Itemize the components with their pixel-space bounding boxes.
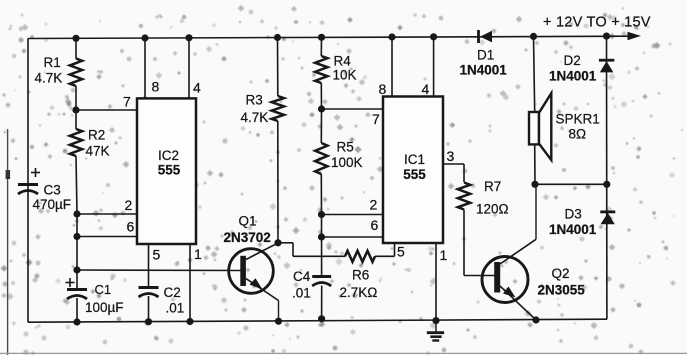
transistor Q2 [482,184,536,320]
svg-text:6: 6 [371,217,379,233]
svg-text:D3: D3 [565,207,582,222]
svg-text:R7: R7 [484,179,501,194]
label R3 [241,93,269,126]
svg-text:Q1: Q1 [239,214,257,229]
node pin6 junction mid [318,233,325,240]
wire IC2 pin 1 [189,244,191,322]
svg-text:47K: 47K [86,144,110,159]
pin 4 IC2 [193,80,201,96]
pin 8 IC2 [152,79,160,95]
svg-text:7: 7 [372,111,380,127]
label D2 [549,53,597,84]
svg-text:5: 5 [153,247,161,263]
svg-text:SPKR1: SPKR1 [556,112,600,127]
node D2 branch rail [603,33,610,40]
wire IC1 pin 2 [322,214,384,216]
wire speaker to node [534,145,536,185]
wire IC1 pin 4 [433,37,435,97]
label C2 [164,285,185,316]
pin 1 IC2 [194,246,202,262]
svg-text:R6: R6 [352,268,369,283]
node C1 bottom rail [73,318,80,325]
node Q1 base junction [73,266,80,273]
label D1 [460,48,508,78]
pin 6 IC1 [371,217,379,233]
svg-text:1N4001: 1N4001 [549,69,597,84]
wire IC2 pin 7 [76,109,137,111]
node pin2 junction left [73,210,80,217]
svg-text:2: 2 [125,197,133,213]
svg-text:1: 1 [440,247,448,263]
svg-text:5: 5 [397,244,405,260]
label C1 [85,282,124,315]
node R3 top rail [274,34,281,41]
node speaker bottom [531,181,538,188]
label R2 [86,128,110,159]
wire IC2 pin 2 [77,213,137,215]
svg-text:8Ω: 8Ω [569,127,587,142]
wire IC2 pin 8 [144,38,146,98]
resistor R7 [458,183,495,276]
node R1/R2/pin7 junction [72,106,79,113]
svg-text:2N3702: 2N3702 [224,230,271,245]
node pin2 junction mid [318,211,325,218]
node top of R1 [72,35,79,42]
power label +12V to +15V [543,15,651,31]
node R3/Q1 collector [274,239,281,246]
node speaker branch rail [530,33,537,40]
node IC1 pin 8 rail [388,33,395,40]
svg-text:7: 7 [123,94,131,110]
svg-text:R5: R5 [337,140,354,155]
wire IC1 pin 6 [322,236,384,238]
label SPKR1 [556,112,600,142]
svg-text:4.7K: 4.7K [35,71,63,86]
resistor R5 [315,109,327,215]
label Q1 [224,214,271,246]
svg-text:D1: D1 [477,48,494,63]
wire IC2 pin 6 [77,236,137,238]
svg-text:3: 3 [447,148,455,164]
node IC1 pin1 rail [432,317,439,324]
diode D2 [599,60,614,72]
resistor R6 [322,251,395,262]
wire right branch D2/D3 [606,36,608,319]
node IC2 pin 8 rail [141,34,148,41]
svg-text:555: 555 [158,163,181,178]
svg-text:555: 555 [403,167,426,182]
pin 7 IC1 [372,111,380,127]
label R7 [476,179,509,217]
pin 3 IC1 [447,148,455,164]
svg-text:120Ω: 120Ω [476,202,509,217]
svg-text:D2: D2 [564,53,581,68]
label Q2 [538,266,586,298]
svg-text:C4: C4 [293,269,311,284]
label R5 [331,140,363,171]
svg-text:Q2: Q2 [552,266,570,281]
transistor Q1 [229,243,279,321]
svg-text:+ 12V TO + 15V: + 12V TO + 15V [543,15,651,31]
capacitor C1 [66,278,88,322]
pin 5 IC1 [397,244,405,260]
label IC2 [158,148,181,178]
resistor R1 [70,38,82,110]
wire mid column to C4 [321,215,323,276]
label IC1 [403,152,426,182]
svg-text:IC2: IC2 [158,148,179,163]
svg-text:1: 1 [194,246,202,262]
op-amp IC2 555 box [137,98,196,244]
wire speaker node to D2 node [535,183,607,185]
wire IC1 pin 8 [391,37,393,97]
resistor R2 [70,110,82,214]
label R6 [340,268,378,301]
svg-text:8: 8 [152,79,160,95]
svg-text:C1: C1 [95,282,112,297]
wire IC2 pin 4 [188,38,190,99]
resistor R4 [315,37,327,109]
label R1 [35,55,63,86]
label C4 [292,269,311,301]
pin 2 IC2 [125,197,133,213]
svg-text:8: 8 [379,81,387,97]
label C3 [33,183,72,213]
svg-text:C3: C3 [44,183,61,198]
svg-text:R3: R3 [246,93,263,108]
capacitor C4 [312,277,331,319]
svg-text:R1: R1 [44,55,61,70]
wire top supply rail [28,36,629,38]
svg-text:100K: 100K [331,155,363,170]
node C2 bottom rail [145,318,152,325]
svg-text:2: 2 [370,197,378,213]
wire IC1 pin 3 [443,164,464,182]
pin 7 IC2 [123,94,131,110]
svg-text:2N3055: 2N3055 [538,283,586,298]
node IC2 pin 4 rail [185,34,192,41]
pin 6 IC2 [127,219,135,235]
supply arrow [628,32,642,40]
pin 1 IC1 [440,247,448,263]
label D3 [549,207,597,238]
svg-text:6: 6 [127,219,135,235]
op-amp IC1 555 box [383,97,443,244]
svg-text:4: 4 [193,80,201,96]
svg-text:100µF: 100µF [85,300,124,315]
svg-text:4: 4 [422,81,430,97]
wire IC2 pin 5 [148,244,150,286]
wire IC1 pin 5 [394,243,396,256]
pin 2 IC1 [370,197,378,213]
node IC1 pin 4 rail [430,33,437,40]
svg-text:.01: .01 [292,286,311,301]
node IC2 pin1 rail [186,318,193,325]
wire node to Q1 base [77,269,241,272]
capacitor C2 [139,288,159,322]
resistor R3 [272,38,284,243]
speaker SPKR1 [529,93,551,160]
wire IC1 pin 1 [435,243,437,321]
label R4 [333,54,357,83]
diode D1 [479,30,493,43]
svg-text:R2: R2 [88,128,105,143]
node R4 top rail [318,34,325,41]
svg-text:1N4001: 1N4001 [460,63,508,78]
node D2/D3 junction [603,181,610,188]
ground [427,321,444,341]
wire IC1 pin 7 [322,108,384,110]
svg-text:.01: .01 [166,301,185,316]
svg-text:1N4001: 1N4001 [549,222,597,237]
svg-text:4.7K: 4.7K [241,110,269,125]
diode D3 [600,212,615,224]
node C4 bottom rail [318,315,325,322]
pin 4 IC1 [422,81,430,97]
capacitor C3 [18,168,40,194]
svg-text:470µF: 470µF [33,197,72,212]
wire speaker branch [534,36,535,112]
svg-text:10K: 10K [333,68,357,83]
node Q1 emitter rail [275,318,282,325]
node pin6 junction left [73,233,80,240]
node Q2 emitter rail [532,316,539,323]
svg-text:R4: R4 [334,54,352,69]
svg-text:2.7KΩ: 2.7KΩ [340,285,378,300]
wire left rail [27,39,29,323]
pin 8 IC1 [379,81,387,97]
svg-text:C2: C2 [164,285,181,300]
node R4/R5/pin7 junction [318,105,325,112]
wire bottom ground rail [28,319,607,322]
svg-text:IC1: IC1 [404,152,425,167]
wire R3 node to R6 line [278,243,322,256]
pin 5 IC2 [153,247,161,263]
wire R2 bottom to C1 [76,214,78,288]
